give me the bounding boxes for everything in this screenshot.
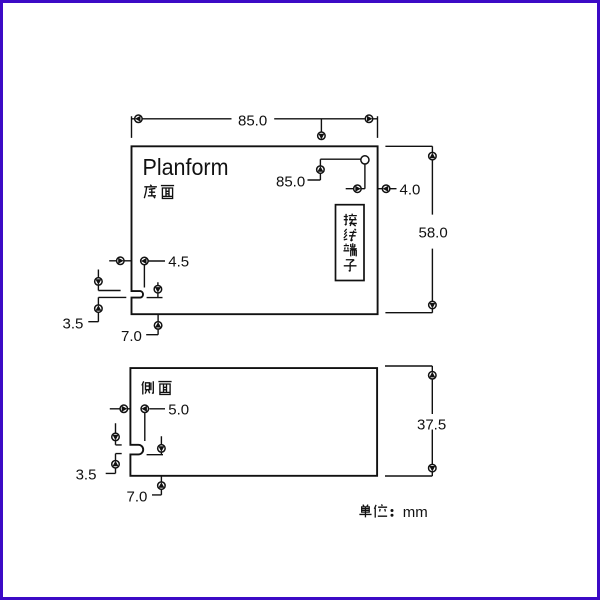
notch pointer marker side view [147, 436, 166, 455]
units note 单位：mm [359, 504, 427, 521]
label Planform [143, 154, 229, 180]
mounting hole circle [361, 156, 369, 164]
label 接线端子 vertical [343, 214, 356, 272]
svg-text:7.0: 7.0 [121, 328, 142, 345]
dimension 58.0 right [385, 146, 447, 312]
dimension 3.5 side view [76, 423, 122, 483]
dimension 4.5 top-left [109, 254, 189, 288]
svg-text:4.5: 4.5 [168, 254, 189, 271]
label 侧面 [142, 381, 172, 394]
svg-text:3.5: 3.5 [76, 467, 97, 484]
svg-text:58.0: 58.0 [419, 224, 448, 241]
label 底面 [144, 185, 174, 199]
side view outline with left notch [130, 368, 377, 476]
svg-text:4.0: 4.0 [400, 182, 421, 199]
dimension 37.5 right [385, 366, 446, 476]
svg-text:3.5: 3.5 [63, 315, 84, 332]
svg-text:85.0: 85.0 [276, 174, 305, 191]
svg-text:5.0: 5.0 [168, 401, 189, 418]
leader from hole down + dimension 4.0 [346, 164, 421, 198]
terminal block box 接线端子 [336, 205, 365, 281]
svg-text:7.0: 7.0 [127, 489, 148, 506]
dimension 5.0 [110, 401, 189, 441]
svg-text:37.5: 37.5 [417, 416, 446, 433]
centre tick marker on top edge [318, 119, 326, 140]
dimension 7.0 bottom-left of top view [121, 315, 162, 345]
leader dimension 85.0 to hole [276, 159, 361, 190]
dimension 7.0 side view [127, 476, 166, 506]
svg-text:85.0: 85.0 [238, 112, 267, 129]
top view outline with left notch [132, 146, 378, 314]
dimension 3.5 top-left of notch [63, 270, 127, 333]
svg-text:mm: mm [403, 504, 428, 521]
dimension 85.0 top [132, 112, 378, 138]
notch pointer marker top view [147, 282, 163, 297]
svg-text:Planform: Planform [143, 154, 229, 180]
